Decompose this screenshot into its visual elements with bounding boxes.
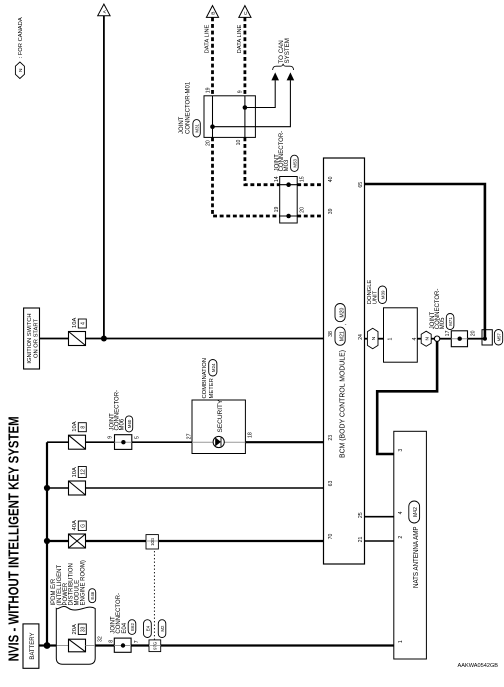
wire fuse 8 to M06 — [86, 441, 115, 443]
joint connector M05 — [451, 331, 467, 347]
wire CAN C to arrows — [245, 80, 275, 107]
NATS label — [409, 501, 420, 588]
svg-text:20: 20 — [299, 207, 305, 213]
node ignition branch — [101, 336, 107, 342]
option symbol N (1) — [367, 328, 378, 348]
wire circle to M05 — [440, 338, 452, 340]
fuse 10A 8 — [69, 421, 87, 449]
joint connector M01 — [204, 96, 255, 138]
wire M05 to M57 — [468, 338, 483, 340]
svg-text:M39: M39 — [380, 290, 385, 299]
wire CAN C dashed right — [243, 17, 246, 95]
battery — [23, 624, 39, 668]
svg-text:NVIS - WITHOUT INTELLIGENT KEY: NVIS - WITHOUT INTELLIGENT KEY SYSTEM — [5, 416, 22, 661]
svg-text:70: 70 — [328, 534, 334, 540]
node 40A branch — [44, 538, 50, 544]
wire fuse 20A to E04 — [86, 645, 96, 647]
page connector arrow C — [239, 6, 251, 18]
svg-text:M60: M60 — [127, 419, 132, 428]
wire E04 to 97G — [131, 644, 149, 646]
connector M2 — [158, 620, 166, 638]
svg-text:JOINT: JOINT — [179, 116, 185, 134]
ignition switch box — [24, 308, 40, 369]
svg-text:M24: M24 — [211, 363, 216, 372]
joint connector E04 — [114, 638, 131, 652]
svg-text:7: 7 — [134, 640, 140, 643]
wire C inside M01 — [244, 96, 246, 138]
svg-text:15: 15 — [299, 176, 305, 182]
svg-text:BATTERY: BATTERY — [30, 633, 36, 660]
wire dongle to hexagon N (2) — [417, 338, 421, 340]
wire hexagon to dongle unit — [378, 338, 384, 340]
wire 40A to 10G — [86, 540, 147, 542]
IPDM E/R box — [56, 606, 95, 664]
svg-text:SYSTEM: SYSTEM — [284, 38, 291, 63]
wire BCM 25 to NATS 4 — [365, 516, 394, 518]
fuse 10A 4 — [69, 318, 87, 346]
svg-text:M06: M06 — [120, 418, 126, 430]
security indicator lamp — [213, 436, 224, 447]
svg-text:M03: M03 — [284, 159, 290, 171]
IPDM label — [51, 560, 96, 605]
svg-text:4: 4 — [412, 337, 418, 340]
dongle unit label — [367, 280, 387, 305]
svg-text:B: B — [211, 11, 217, 14]
svg-text:ON OR START: ON OR START — [34, 319, 40, 359]
connector circle — [434, 336, 439, 341]
svg-text:10G: 10G — [150, 537, 155, 546]
svg-text:3: 3 — [398, 449, 404, 452]
node battery tee — [44, 642, 51, 649]
M06 label — [110, 390, 133, 432]
svg-text:M42: M42 — [413, 507, 419, 517]
wire inside meter — [192, 441, 213, 443]
svg-text:10: 10 — [236, 140, 242, 146]
svg-text:25: 25 — [358, 512, 364, 518]
svg-text:12: 12 — [81, 469, 87, 475]
svg-text:N: N — [371, 336, 377, 340]
wire B dashed to M53 — [213, 137, 280, 216]
wire C inside M03 — [280, 184, 298, 186]
E04 label — [111, 593, 136, 634]
joint connector M03 — [280, 177, 298, 224]
svg-text:32: 32 — [98, 636, 104, 642]
svg-text:C: C — [243, 11, 249, 15]
svg-text:40: 40 — [328, 176, 334, 182]
M05 label — [430, 289, 454, 330]
wire meter to BCM pin 23 — [245, 441, 323, 443]
svg-text:ENGINE ROOM): ENGINE ROOM) — [81, 560, 87, 605]
svg-text:17: 17 — [445, 330, 451, 336]
connector 97G — [149, 640, 161, 652]
svg-text:4: 4 — [81, 322, 87, 325]
svg-text:19: 19 — [205, 87, 211, 93]
svg-text:14: 14 — [274, 176, 280, 182]
svg-text:9: 9 — [237, 90, 243, 93]
svg-text:20: 20 — [471, 330, 477, 336]
svg-text:SECURITY: SECURITY — [217, 399, 224, 433]
svg-text:AAKWA0542GB: AAKWA0542GB — [458, 663, 499, 669]
M01 label — [179, 81, 200, 137]
page connector arrow A — [98, 4, 110, 16]
fuse 10A 12 — [69, 467, 87, 496]
svg-text:10A: 10A — [72, 318, 78, 328]
svg-text:METER: METER — [209, 378, 215, 398]
wire fuse 12 to BCM pin 63 — [86, 487, 324, 489]
wire hexagon to connector circle — [431, 338, 434, 340]
svg-text:10A: 10A — [72, 421, 78, 431]
svg-text:NATS ANTENNA AMP: NATS ANTENNA AMP — [413, 526, 420, 588]
connector box M57 — [482, 330, 492, 345]
svg-text:40A: 40A — [72, 520, 78, 530]
svg-text:COMBINATION: COMBINATION — [202, 358, 208, 398]
svg-text:G: G — [81, 524, 87, 528]
svg-text:DATA LINE: DATA LINE — [237, 24, 243, 53]
wire 97G to NATS pin 1 — [161, 644, 394, 646]
node 10A-12 branch — [44, 485, 50, 491]
svg-text:IGNITION SWITCH: IGNITION SWITCH — [27, 313, 33, 363]
svg-text:65: 65 — [358, 182, 364, 188]
svg-text:M21: M21 — [340, 331, 346, 341]
svg-text:DATA LINE: DATA LINE — [205, 24, 211, 53]
svg-text:19: 19 — [274, 207, 280, 213]
svg-text:10A: 10A — [72, 467, 78, 477]
wire CAN B dashed right — [211, 17, 214, 95]
wire bus to fusible link 40A — [47, 540, 69, 542]
wire circle branch to NATS pin 3 — [377, 341, 437, 454]
svg-text:E4: E4 — [145, 625, 150, 631]
connector E4 — [144, 620, 152, 638]
page connector arrow B — [206, 6, 218, 18]
svg-text:M71: M71 — [448, 317, 453, 326]
BCM box — [324, 158, 365, 564]
wire CAN B to arrows — [213, 80, 291, 127]
node C in M01 — [243, 105, 248, 110]
svg-text:21: 21 — [358, 537, 364, 543]
fuse 20A 33 — [69, 624, 87, 652]
svg-text:20A: 20A — [72, 624, 78, 634]
wire C dashed M53 to BCM 40 — [297, 183, 323, 186]
combination meter label — [202, 358, 217, 398]
svg-text:38: 38 — [328, 331, 334, 337]
arrow to CAN (upper) — [271, 72, 279, 80]
svg-text:4: 4 — [398, 511, 404, 514]
M57 label — [494, 330, 502, 346]
wire power bus — [46, 442, 48, 645]
option symbol N (2) — [421, 331, 431, 346]
svg-text:E62: E62 — [130, 623, 135, 631]
combination meter box — [192, 400, 245, 454]
node B in M03 — [286, 214, 291, 219]
wire BCM 21 to NATS 2 — [365, 540, 394, 542]
wire B inside M03 — [280, 215, 298, 217]
svg-text:N: N — [425, 336, 431, 340]
svg-text:BCM (BODY CONTROL MODULE): BCM (BODY CONTROL MODULE) — [340, 350, 347, 458]
svg-text:33: 33 — [81, 626, 87, 632]
svg-text:5: 5 — [134, 436, 140, 439]
wire to page connector A — [103, 16, 105, 339]
svg-text:63: 63 — [328, 481, 334, 487]
node B in M01 — [210, 124, 215, 129]
brace TO CAN — [273, 64, 294, 70]
TO CAN SYSTEM label — [278, 38, 291, 63]
svg-text:1: 1 — [388, 337, 394, 340]
wire B inside M01 — [212, 96, 214, 138]
joint connector M06 — [115, 435, 132, 450]
wire BCM 65 to M57 — [365, 184, 485, 338]
fusible link 40A G — [69, 520, 87, 548]
wire harness link dotted — [153, 549, 155, 640]
svg-text:39: 39 — [328, 208, 334, 214]
svg-text:8: 8 — [81, 426, 87, 429]
svg-text:M31: M31 — [195, 123, 200, 132]
svg-text:9: 9 — [107, 436, 113, 439]
wire fuse 4 to BCM pin 38 — [86, 338, 324, 340]
wire battery to bus — [39, 644, 47, 646]
svg-text:8: 8 — [109, 640, 115, 643]
wire M06 to combination meter — [132, 441, 192, 443]
wire ignition to fuse 10A-4 — [40, 338, 69, 340]
svg-text:CONNECTOR-M01: CONNECTOR-M01 — [185, 81, 191, 134]
svg-text:M57: M57 — [497, 333, 502, 342]
svg-text:: FOR CANADA: : FOR CANADA — [18, 17, 24, 58]
node C in M03 — [286, 182, 291, 187]
wire bus to fuse 20A — [47, 644, 56, 646]
svg-text:1: 1 — [398, 640, 404, 643]
NATS antenna amp box — [394, 431, 427, 659]
connector 10G — [146, 535, 158, 549]
svg-text:M20: M20 — [340, 308, 346, 318]
svg-text:2: 2 — [398, 536, 404, 539]
wire C dashed to M53 — [245, 137, 280, 184]
wire bus to fuse 10A-8 — [47, 441, 69, 443]
svg-text:E04: E04 — [122, 622, 128, 633]
svg-text:24: 24 — [358, 334, 364, 340]
svg-text:23: 23 — [328, 435, 334, 441]
svg-text:E46: E46 — [90, 591, 95, 599]
wire B dashed M53 to BCM 39 — [297, 215, 323, 218]
svg-text:18: 18 — [247, 432, 253, 438]
svg-text:M2: M2 — [160, 625, 165, 632]
M03 label — [274, 131, 298, 172]
wire 10G to BCM pin 70 — [158, 540, 323, 542]
note symbol N : FOR CANADA — [15, 17, 24, 78]
svg-text:97G: 97G — [153, 641, 158, 650]
wire BCM 24 to hexagon N — [365, 338, 368, 340]
svg-text:M53: M53 — [292, 158, 297, 167]
BCM label — [335, 304, 348, 459]
svg-text:M05: M05 — [440, 317, 446, 329]
svg-text:N: N — [18, 68, 24, 72]
dongle unit box — [384, 308, 418, 362]
arrow to CAN (lower) — [287, 72, 295, 80]
svg-text:20: 20 — [206, 140, 212, 146]
wire bus to fuse 10A-12 — [47, 487, 69, 489]
svg-text:UNIT: UNIT — [373, 290, 379, 304]
